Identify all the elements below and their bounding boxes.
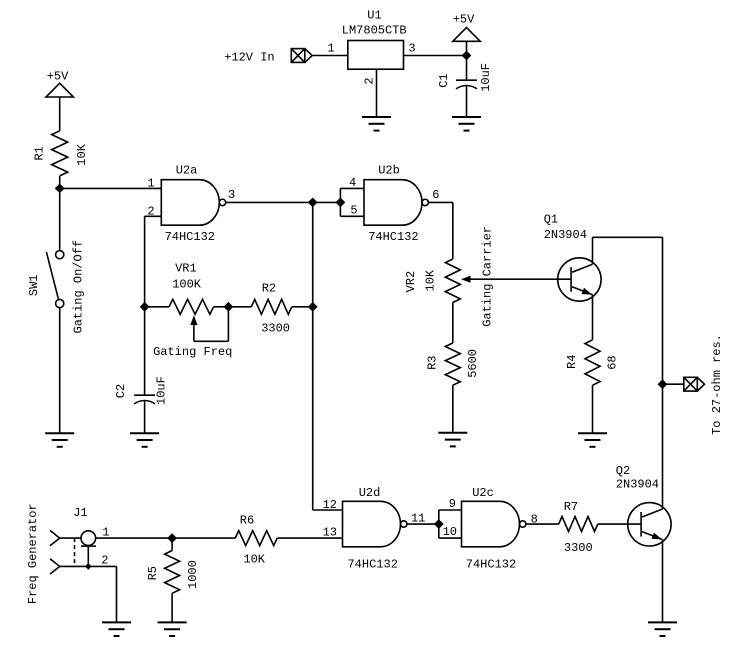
resistor R1 [52, 131, 68, 176]
svg-text:C2: C2 [114, 384, 128, 398]
svg-text:74HC132: 74HC132 [368, 230, 418, 244]
switch SW1 [46, 251, 63, 308]
junction node jack sleeve [86, 564, 91, 569]
wire [663, 383, 684, 385]
pin 2 wire U2a [145, 215, 162, 217]
svg-text:74HC132: 74HC132 [347, 558, 397, 572]
wire [59, 97, 61, 131]
wire [452, 303, 454, 344]
wire [277, 537, 342, 539]
svg-text:C1: C1 [437, 73, 451, 87]
svg-text:U2b: U2b [378, 164, 400, 178]
junction node R5 tap [168, 534, 176, 542]
svg-text:SW1: SW1 [27, 274, 41, 296]
junction node VR1/R2 [224, 303, 232, 311]
svg-text:5: 5 [350, 204, 357, 218]
wire [59, 188, 61, 250]
svg-text:3: 3 [408, 42, 415, 56]
ground under U1 [362, 117, 391, 131]
nand gate U2a [161, 180, 219, 226]
output wire U2d [407, 523, 439, 525]
svg-text:6: 6 [432, 188, 439, 202]
svg-text:J1: J1 [73, 506, 87, 520]
svg-text:3300: 3300 [564, 541, 593, 555]
pin 1 wire J1 [96, 537, 236, 539]
capacitor C1 [456, 79, 477, 81]
ground under C2 [130, 433, 159, 447]
wire [466, 86, 468, 118]
wire [452, 202, 454, 259]
svg-text:9: 9 [449, 497, 456, 511]
dashed link J1 [74, 538, 76, 566]
jack J1 contact 2 [50, 559, 60, 574]
svg-text:R7: R7 [564, 500, 578, 514]
wiper wire VR2 [469, 278, 572, 280]
svg-text:R1: R1 [32, 146, 46, 160]
svg-text:+12V In: +12V In [224, 50, 274, 64]
wiper arrow VR1 [190, 315, 197, 325]
svg-text:5600: 5600 [466, 349, 480, 378]
wire [592, 385, 594, 433]
nand gate U2d [343, 501, 401, 547]
svg-text:Q2: Q2 [616, 464, 630, 478]
transistor Q1 [558, 258, 601, 301]
wire right rail [662, 237, 664, 509]
junction node U2b input [336, 198, 344, 206]
wire [292, 306, 313, 308]
wire [145, 306, 170, 308]
input bracket U2c [439, 510, 462, 538]
capacitor C2 [134, 394, 155, 396]
wire [312, 55, 348, 57]
junction node C2/VR1 [140, 303, 148, 311]
svg-text:R6: R6 [240, 513, 254, 527]
wire [598, 523, 641, 525]
svg-text:4: 4 [349, 176, 356, 190]
ground under Q2 [648, 622, 677, 636]
wire [59, 308, 61, 434]
wire [60, 537, 81, 539]
svg-text:74HC132: 74HC132 [165, 230, 215, 244]
svg-text:U1: U1 [367, 9, 381, 23]
wire [313, 509, 343, 511]
resistor R6 [235, 531, 277, 546]
svg-text:VR1: VR1 [175, 262, 197, 276]
nand gate U2c [462, 501, 520, 547]
svg-text:VR2: VR2 [404, 271, 418, 293]
svg-text:Gating On/Off: Gating On/Off [72, 240, 86, 334]
svg-text:1000: 1000 [186, 560, 200, 589]
junction node 11 [435, 520, 443, 528]
svg-text:10: 10 [443, 525, 457, 539]
potentiometer VR1 [169, 299, 214, 314]
svg-text:Freq Generator: Freq Generator [26, 503, 40, 604]
wire [312, 202, 314, 510]
svg-text:10K: 10K [243, 553, 265, 567]
svg-text:Q1: Q1 [544, 213, 558, 227]
svg-text:R5: R5 [146, 566, 160, 580]
wire [116, 566, 118, 622]
svg-text:U2a: U2a [176, 164, 198, 178]
svg-text:12: 12 [323, 498, 337, 512]
svg-text:2: 2 [363, 77, 377, 84]
ground under SW1 [45, 433, 74, 447]
wire [144, 216, 146, 395]
svg-text:10uF: 10uF [155, 376, 169, 405]
ground under R4 [578, 433, 607, 447]
svg-text:Gating Carrier: Gating Carrier [480, 226, 494, 327]
resistor R3 [445, 343, 460, 385]
wire [60, 187, 162, 189]
ground under R5 [158, 622, 187, 636]
wire [214, 306, 229, 308]
wire [228, 306, 251, 308]
svg-text:U2d: U2d [359, 486, 381, 500]
svg-text:R3: R3 [425, 355, 439, 369]
ground under J1 [102, 622, 131, 636]
collector wire Q1 [592, 237, 594, 264]
pin 2 wire J1 [60, 565, 117, 567]
wire [59, 176, 61, 189]
jack J1 ring [81, 531, 96, 546]
wire [404, 55, 467, 57]
svg-text:3300: 3300 [261, 322, 290, 336]
output wire U2a [226, 201, 341, 203]
regulator U1 box [348, 41, 404, 70]
svg-text:1: 1 [327, 42, 334, 56]
svg-text:10uF: 10uF [479, 63, 493, 92]
svg-text:74HC132: 74HC132 [466, 558, 516, 572]
svg-text:2N3904: 2N3904 [616, 478, 659, 492]
svg-text:100K: 100K [172, 278, 202, 292]
nand gate U2b [364, 180, 422, 226]
ground under C1 [452, 117, 481, 131]
connector To 27-ohm res. [684, 377, 705, 391]
connector +12V In [291, 49, 312, 63]
svg-text:13: 13 [323, 526, 337, 540]
junction node R2 right [309, 303, 317, 311]
svg-text:U2c: U2c [472, 486, 494, 500]
wire [593, 236, 663, 238]
transistor Q2 [628, 503, 671, 546]
pin 2 wire U1 [376, 69, 378, 117]
junction node 3 [309, 198, 317, 206]
ground under R3 [438, 433, 467, 447]
resistor R5 [165, 551, 180, 594]
emitter wire Q1 [592, 295, 594, 340]
wire [144, 401, 146, 434]
junction node output [658, 380, 666, 388]
junction node +5V [462, 51, 470, 59]
output wire U2c [526, 523, 559, 525]
wire [171, 538, 173, 550]
input bracket U2b [340, 188, 364, 216]
svg-text:R4: R4 [565, 355, 579, 369]
wiper arrow VR2 [461, 276, 471, 283]
svg-text:2N3904: 2N3904 [544, 228, 587, 242]
svg-text:1: 1 [147, 177, 154, 191]
wiper wire VR1 [194, 307, 229, 342]
power +5V left [46, 83, 73, 97]
resistor R4 [585, 340, 600, 386]
svg-text:Gating Freq: Gating Freq [153, 345, 232, 359]
svg-text:LM7805CTB: LM7805CTB [342, 24, 407, 38]
svg-text:68: 68 [606, 355, 620, 369]
jack J1 contact 1 [50, 530, 60, 545]
svg-text:+5V: +5V [453, 13, 475, 27]
potentiometer VR2 [445, 259, 460, 303]
svg-text:To 27-ohm res.: To 27-ohm res. [710, 334, 724, 435]
power +5V top right [453, 28, 480, 42]
svg-text:2: 2 [101, 554, 108, 568]
output wire U2b [428, 201, 452, 203]
wire [452, 385, 454, 433]
svg-text:+5V: +5V [47, 69, 69, 83]
emitter wire Q2 [662, 540, 664, 623]
resistor R7 [559, 517, 598, 532]
svg-text:10K: 10K [75, 143, 89, 165]
svg-text:3: 3 [228, 188, 235, 202]
wire [466, 41, 468, 80]
resistor R2 [251, 299, 291, 314]
wire [87, 546, 89, 566]
svg-text:10K: 10K [423, 269, 437, 291]
svg-text:R2: R2 [262, 282, 276, 296]
wire [171, 593, 173, 622]
junction node R1/SW1 [56, 184, 64, 192]
